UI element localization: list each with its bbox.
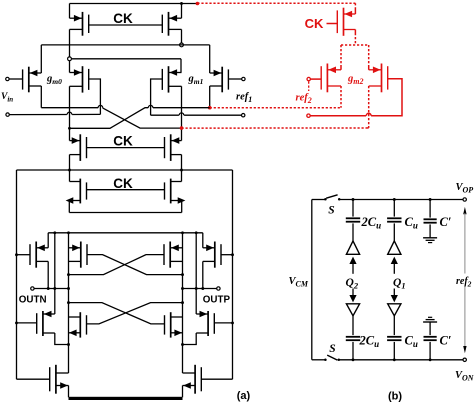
terminal VOP: [463, 198, 466, 201]
wire latch cross W1: [87, 255, 183, 275]
arrow down Q1: [393, 289, 395, 296]
wire MR1 gate lead: [221, 254, 233, 256]
wire X2 gate lead: [151, 79, 163, 115]
red wire gm2L drain: [340, 66, 342, 70]
branch C' top: [429, 198, 432, 201]
red dashed top rail: [197, 2, 355, 4]
wire CK gate line row1: [89, 24, 163, 26]
transistor gm2 left: [321, 64, 341, 93]
branch 2Cu top: [352, 198, 355, 201]
wire Vcm left rail: [311, 200, 313, 360]
red wire gm2R drain: [368, 66, 370, 70]
wire ML1 source down to OUTN: [47, 261, 49, 288]
red node Mref source: [208, 106, 212, 110]
wire mid vertical x68.5 left: [68, 233, 70, 373]
red dashed gm2L source down: [340, 86, 342, 108]
wire frame right vertical: [232, 170, 234, 379]
red node top rail: [196, 2, 200, 6]
wire Min source down: [40, 86, 42, 108]
wire MT1 source down: [68, 386, 70, 398]
svg-text:S: S: [328, 205, 334, 217]
red node drain N2: [180, 126, 184, 130]
wire ML1 drain up: [47, 233, 49, 248]
node on top rail: [180, 2, 183, 5]
transistor P2 (clock PMOS right): [162, 12, 181, 36]
transistor N1 (clock row2 left): [70, 134, 87, 161]
transistor gm2 right: [369, 64, 388, 93]
red wire ref2 gate lead: [310, 78, 321, 80]
branch C' bottom: [429, 322, 431, 335]
transistor MT2 (tail right): [183, 365, 202, 394]
wire crossover line B: [70, 108, 149, 129]
red terminal ref2: [307, 77, 310, 80]
terminal Vin+: [6, 77, 9, 80]
transistor ML1 (latch left outer): [30, 242, 48, 268]
wire X1 source down: [69, 86, 71, 140]
diode up branch 1: [388, 241, 401, 254]
ref2 dimension arrow: [463, 207, 466, 214]
svg-text:CK: CK: [113, 176, 133, 191]
wire ML1 gate lead: [17, 254, 30, 256]
svg-text:C′: C′: [440, 334, 452, 348]
wire rail Y2: [70, 58, 182, 60]
wire P1 drain up: [69, 4, 71, 19]
wire N3 source down: [68, 201, 70, 213]
wire P1 source down: [69, 29, 71, 72]
transistor MR1 (latch right outer): [203, 242, 221, 268]
wire X2 cross W4: [69, 303, 165, 324]
red dashed line lower to main: [182, 127, 367, 129]
svg-text:(b): (b): [388, 391, 402, 402]
diode down branch 2: [346, 304, 359, 316]
red dashed line upper to main: [210, 107, 341, 109]
wire N4 drain up: [181, 170, 183, 182]
transistor X2 (cross mid right): [162, 66, 181, 92]
wire Min drain up to Y1: [40, 45, 42, 73]
switch S top: [312, 199, 325, 201]
transistor N4 (clock row3 right): [165, 179, 186, 204]
transistor N3 (clock row3 left): [66, 179, 87, 204]
transistor N2 (clock row2 right): [165, 134, 182, 161]
ground bar: [69, 397, 183, 400]
wire ML3 source down: [55, 333, 69, 345]
branch Cu bottom cap: [387, 336, 401, 338]
svg-text:C′: C′: [440, 215, 452, 229]
wire MR1 drain up: [202, 233, 204, 248]
wire rail Y5: [48, 232, 203, 234]
wire mid vertical x196.2 right: [195, 233, 197, 314]
wire frame left vertical: [16, 170, 18, 379]
transistor MR2 (latch right inner): [164, 242, 183, 268]
wire Mref source down: [209, 86, 211, 108]
wire OUTN line: [34, 288, 68, 290]
arrow down Q2: [352, 289, 354, 296]
wire ML3 gate lead: [17, 322, 37, 324]
wire MR3 gate lead: [214, 322, 232, 324]
wire P2 source down: [181, 29, 183, 45]
transistor X1 (cross mid left): [70, 66, 89, 92]
wire ref2- line right: [242, 114, 245, 117]
branch Cu top: [393, 198, 396, 201]
wire rail Y3 frame top: [17, 169, 233, 171]
wire Vin+ gate lead: [9, 78, 23, 80]
terminal OUTN: [31, 287, 34, 290]
transistor ML2 (latch left inner): [69, 242, 88, 268]
svg-text:S: S: [329, 343, 335, 355]
branch 2Cu bottom cap: [346, 336, 360, 338]
wire MT2 gate lead: [202, 378, 233, 380]
arrow up Q1: [391, 257, 398, 264]
wire top rail: [70, 3, 198, 5]
red dashed gm2R source down: [368, 86, 370, 128]
wire CK gate line row3: [87, 189, 165, 191]
wire mid vertical x54.8 left: [54, 233, 56, 314]
wire Vin- input line: [6, 113, 9, 116]
red wire diode line: [310, 115, 366, 117]
svg-text:CK: CK: [113, 11, 133, 26]
transistor ML4 (latch2 left inner): [69, 312, 87, 337]
terminal OUTP: [217, 287, 220, 290]
wire crossover line P: [41, 107, 98, 109]
wire OUTP line: [183, 288, 217, 290]
junction X1 source / crossover: [68, 127, 71, 130]
red wire CKr drain: [354, 9, 356, 14]
transistor ML3 (latch2 left outer): [37, 311, 55, 336]
wire N1 source down: [69, 155, 71, 170]
wire CK gate line row2: [87, 147, 165, 149]
switch S bottom: [312, 359, 325, 361]
red wire CKr source down: [354, 30, 356, 34]
transistor MR3 (latch2 right outer): [196, 311, 214, 336]
wire latch cross W2: [69, 255, 165, 275]
red terminal ref2 line: [307, 114, 310, 117]
node circle on Y1: [180, 43, 184, 47]
wire MR3 source down: [183, 333, 197, 345]
wire Y2 right corner down: [180, 59, 182, 73]
transistor Mref (input gm1): [210, 67, 229, 93]
ground bottom C': [428, 316, 432, 318]
terminal VON: [463, 358, 466, 361]
wire N3 drain up: [69, 170, 71, 182]
svg-text:OUTN: OUTN: [19, 295, 47, 306]
svg-text:OUTP: OUTP: [203, 295, 231, 306]
wire X2 source down: [181, 86, 183, 140]
wire X1 gate lead: [89, 79, 101, 114]
svg-text:(a): (a): [237, 390, 251, 402]
wire Mref drain up to Y1: [209, 45, 211, 73]
wire N4 source down: [181, 201, 183, 213]
transistor P1 (clock PMOS left): [70, 12, 89, 36]
wire MR1 source down to OUTP: [202, 261, 204, 288]
svg-text:CK: CK: [305, 16, 324, 31]
transistor CKr (red clock): [337, 8, 355, 36]
terminal ref1: [242, 77, 245, 80]
red dashed tail: [354, 33, 356, 45]
wire X2 cross W3: [87, 303, 183, 324]
wire rail Y1: [41, 44, 209, 46]
wire N2 source down: [181, 155, 183, 170]
svg-text:CK: CK: [113, 134, 133, 149]
wire mid vertical x182.5 right: [182, 233, 184, 373]
transistor Min (input gm0): [23, 67, 42, 93]
red wire CK gate lead: [327, 23, 338, 25]
red dashed ref2 stub: [308, 82, 310, 92]
diode up branch 2: [346, 241, 359, 254]
wire rail Y4: [69, 212, 181, 214]
arrow up Q2: [349, 257, 356, 264]
wire P2 drain up: [181, 4, 183, 19]
transistor MT1 (tail left): [50, 365, 69, 394]
diode down branch 1: [388, 304, 401, 316]
wire ref1 gate lead: [228, 78, 241, 80]
transistor MR4 (latch2 right inner): [165, 312, 183, 337]
wire MT1 gate lead: [17, 378, 50, 380]
ground top C': [423, 237, 437, 239]
wire MT2 source down: [182, 386, 184, 398]
